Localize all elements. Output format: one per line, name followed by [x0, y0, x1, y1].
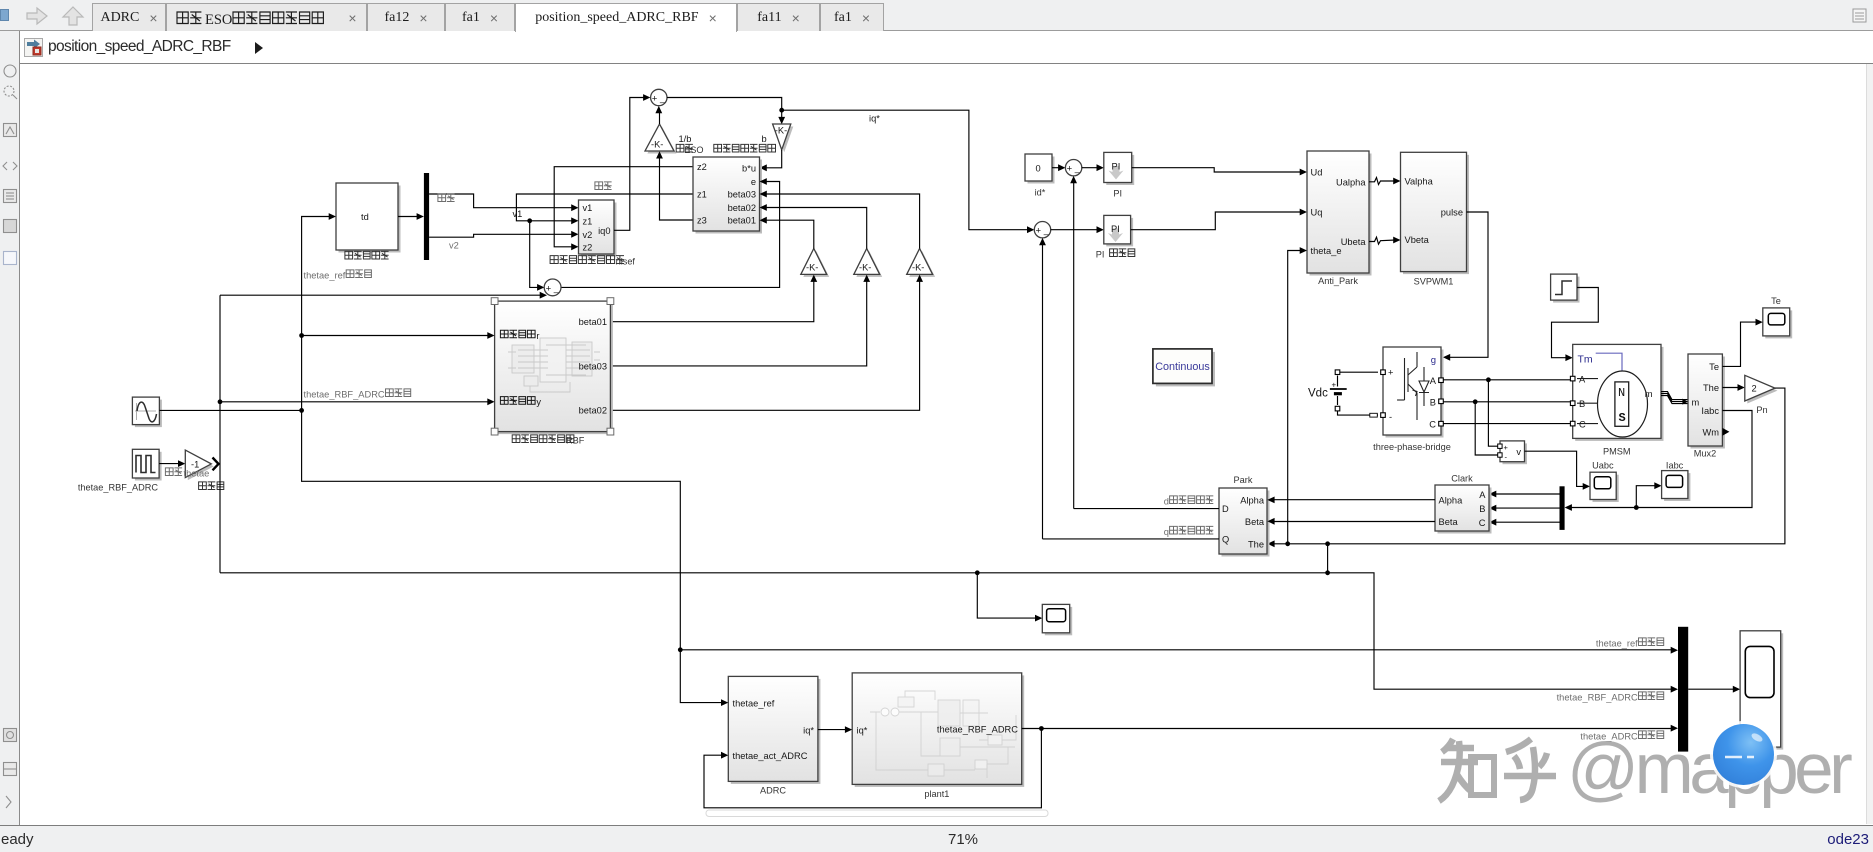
wire Vdc- -> bridge- — [1338, 411, 1379, 415]
svg-text:Pn: Pn — [1756, 405, 1767, 415]
block Mux2 — [1688, 354, 1729, 449]
wire sum iq -> PI控制器 — [1051, 229, 1098, 231]
scope (small, theta) — [1042, 604, 1072, 635]
wire q-current up into sum iq — [1042, 244, 1044, 539]
svg-text:_: _ — [659, 93, 666, 104]
demux bar (td outputs) — [424, 173, 429, 260]
svg-text:+: + — [546, 284, 552, 295]
svg-text:beta03: beta03 — [579, 361, 607, 371]
partial window icon top-left — [0, 9, 9, 21]
sum iq circle — [1034, 222, 1050, 238]
wire ADRC feedback — [704, 729, 1041, 808]
wire bridge A -> PMSM A — [1443, 379, 1570, 381]
faint NN sketch — [508, 338, 600, 392]
block PI控制器 (q axis) — [1104, 215, 1133, 246]
wire gain -> ESO beta03 — [766, 194, 920, 249]
svg-text:nlsef: nlsef — [616, 257, 636, 267]
wire RBF beta02 -> gain — [610, 281, 919, 410]
svg-text:Iabc: Iabc — [1701, 406, 1719, 416]
svg-text:SVPWM1: SVPWM1 — [1414, 277, 1454, 287]
svg-text:thetae_RBF_ADRC: thetae_RBF_ADRC — [937, 724, 1018, 734]
svg-text:A: A — [1430, 376, 1437, 386]
wire e feedback (sum4 -> ESO e) — [561, 182, 780, 288]
wire thetae_ref vertical riser — [302, 217, 331, 411]
wire Mux2 Iabc -> Clark demux — [1570, 411, 1752, 508]
faint plant sketch — [870, 691, 1016, 778]
svg-text:-K-: -K- — [859, 263, 871, 273]
gain beta02 triangle (right) — [907, 249, 935, 277]
wire Clark Beta -> Park Beta — [1273, 521, 1435, 523]
svg-text:z2: z2 — [583, 242, 593, 252]
wire theta feedback vertical (x=220) — [219, 295, 221, 573]
wire theta_e riser — [1288, 251, 1301, 544]
node branch to ADRC/mux — [678, 647, 683, 652]
source Step (Tm) — [1551, 274, 1580, 303]
svg-text:iq*: iq* — [869, 114, 880, 124]
svg-text:pulse: pulse — [1441, 207, 1463, 217]
wire 1/b apex -> sum1 — [659, 113, 661, 125]
source block Sine Wave (thetae_ref) — [132, 397, 162, 427]
svg-text:z2: z2 — [697, 162, 707, 172]
svg-text:0: 0 — [1036, 164, 1041, 174]
svg-text:PI: PI — [1111, 224, 1120, 234]
wire z2 from ESO to nlsef — [554, 167, 693, 247]
svg-text:theta_e: theta_e — [1311, 246, 1342, 256]
up/home arrow — [60, 5, 86, 27]
svg-text:Valpha: Valpha — [1405, 176, 1434, 186]
svg-text:D: D — [1222, 504, 1229, 514]
svg-text:B: B — [1479, 504, 1485, 514]
wire PI控制器 -> Anti_Park Uq — [1131, 212, 1301, 230]
svg-text:A: A — [1579, 374, 1586, 384]
wire iq0 -> sum1 — [614, 98, 645, 231]
svg-text:ESO: ESO — [205, 12, 232, 28]
scope (display, large) — [1740, 631, 1783, 750]
port squares — [1381, 370, 1386, 375]
block PI (d axis) — [1104, 152, 1134, 185]
svg-text:v: v — [1516, 447, 1521, 457]
svg-text:PI: PI — [1112, 162, 1121, 172]
IGBT + diode icon — [1397, 352, 1429, 420]
right list icon — [1852, 8, 1868, 24]
svg-text:+: + — [1332, 381, 1337, 390]
svg-text:A: A — [1479, 490, 1486, 500]
svg-text:thetae_RBF_ADRC: thetae_RBF_ADRC — [1557, 693, 1638, 703]
wire Park D -> sum id (d current) — [1074, 508, 1219, 510]
svg-text:+: + — [1388, 368, 1393, 378]
display mux bar — [1678, 627, 1688, 752]
svg-text:g: g — [1431, 355, 1436, 366]
wire gain -> ESO beta01 — [766, 220, 814, 248]
svg-text:+: + — [1067, 164, 1073, 175]
svg-text:Park: Park — [1234, 475, 1253, 485]
svg-text:beta02: beta02 — [728, 203, 756, 213]
gain beta03 triangle (middle) — [854, 249, 882, 277]
svg-text:Tm: Tm — [1578, 354, 1593, 366]
svg-text:q: q — [1164, 527, 1169, 537]
svg-text:z3: z3 — [697, 216, 707, 226]
wire plant1 out -> display mux — [1022, 728, 1672, 730]
svg-text:The: The — [1703, 383, 1719, 393]
wire bridge B -> PMSM B — [1443, 401, 1570, 403]
svg-text:Uabc: Uabc — [1592, 461, 1614, 471]
svg-text:thetae_ref: thetae_ref — [1596, 639, 1638, 649]
svg-text:-K-: -K- — [651, 140, 663, 150]
svg-text:iq0: iq0 — [598, 226, 610, 236]
wire pulse -> gain — [159, 463, 179, 465]
svg-text:PI: PI — [1113, 189, 1122, 199]
selection handles — [491, 298, 498, 305]
block ADRC — [728, 676, 820, 784]
model icon — [24, 38, 43, 57]
svg-text:thetae_act_ADRC: thetae_act_ADRC — [733, 751, 808, 761]
svg-text:C: C — [1479, 518, 1486, 528]
node z1 branch — [527, 218, 532, 223]
svg-text:Iabc: Iabc — [1666, 461, 1684, 471]
svg-text:thetae_ADRC: thetae_ADRC — [1580, 732, 1638, 742]
sum e circle — [544, 279, 561, 296]
wires demux -> Clark A,B,C — [1495, 493, 1560, 495]
wire v2 — [429, 234, 572, 237]
svg-text:v1: v1 — [583, 203, 593, 213]
wire 期望 (v1) — [429, 194, 572, 208]
svg-text:Ubeta: Ubeta — [1341, 237, 1367, 247]
svg-text:beta01: beta01 — [728, 216, 756, 226]
svg-text:PMSM: PMSM — [1603, 447, 1631, 457]
block SVPWM1 — [1401, 152, 1470, 274]
forward arrow — [24, 6, 50, 26]
block plant1 — [852, 673, 1024, 787]
source block Pulse Generator (thetae_RBF_ADRC实际值) — [132, 449, 161, 480]
wire feedback theta -> sum e — [220, 294, 541, 296]
wire pulse -> bridge g — [1449, 212, 1488, 357]
wire b -> b*u port — [766, 150, 782, 168]
svg-text:C: C — [1429, 420, 1436, 430]
wire Park Q -> sum iq (q current) — [1043, 538, 1220, 540]
svg-text:v1: v1 — [513, 209, 523, 219]
block td 跟踪微分器 — [336, 183, 401, 253]
svg-text:beta03: beta03 — [728, 190, 756, 200]
svg-text:N: N — [1618, 386, 1625, 400]
svg-text:Alpha: Alpha — [1240, 496, 1265, 506]
port squares — [1570, 376, 1575, 381]
label 期望 — [438, 194, 455, 202]
svg-text:Ualpha: Ualpha — [1336, 177, 1366, 187]
wire Ubeta -> Vbeta (jog) — [1369, 237, 1396, 244]
block three-phase-bridge — [1381, 347, 1444, 438]
wire thetae_ref long run to display mux — [680, 649, 1672, 651]
gain Pn (x2) — [1745, 375, 1778, 403]
scrollbar thumb — [706, 810, 1048, 817]
wire 0 -> sum id — [1052, 167, 1060, 169]
svg-text:Vdc: Vdc — [1308, 388, 1328, 400]
乎 glyph — [1504, 739, 1556, 800]
svg-text:b*u: b*u — [742, 163, 756, 173]
svg-text:m: m — [1692, 397, 1700, 407]
svg-text:beta02: beta02 — [579, 406, 607, 416]
wire Clark Alpha -> Park Alpha — [1273, 499, 1435, 501]
svg-text:B: B — [1579, 399, 1585, 409]
wire sum id -> PI — [1082, 167, 1098, 169]
rotor icon — [1596, 353, 1622, 372]
node small scope branch — [975, 570, 980, 575]
svg-text:id*: id* — [1035, 188, 1046, 198]
wire gain -> ESO beta02 — [766, 208, 867, 249]
svg-text:y: y — [536, 397, 541, 407]
svg-text:plant1: plant1 — [924, 789, 949, 799]
voltage measurement v — [1498, 441, 1527, 464]
svg-text:-K-: -K- — [912, 263, 924, 273]
wire Vdc+ -> bridge+ — [1340, 371, 1378, 373]
svg-text:Q: Q — [1222, 535, 1229, 545]
svg-text:ESO: ESO — [684, 145, 703, 155]
svg-text:-K-: -K- — [775, 126, 787, 136]
wire sine -> junction — [159, 409, 301, 411]
wire mux -> big scope — [1688, 688, 1734, 690]
svg-text:C: C — [1579, 419, 1586, 429]
label 观测 — [595, 182, 612, 190]
block 径向基神经网络RBF (selected) — [495, 301, 613, 434]
svg-text:+: + — [1036, 226, 1042, 237]
svg-text:iq*: iq* — [803, 725, 814, 735]
svg-text:Wm: Wm — [1702, 428, 1719, 438]
svg-text:td: td — [361, 212, 369, 222]
block Anti_Park — [1307, 151, 1372, 276]
wire ADRC iq* -> plant1 — [818, 729, 846, 731]
wire Mux2 The -> Pn — [1722, 387, 1739, 389]
wire step -> PMSM Tm — [1552, 288, 1599, 358]
svg-text:Mux2: Mux2 — [1694, 449, 1716, 459]
wire r input — [299, 333, 304, 338]
svg-text:thetae: thetae — [184, 469, 210, 479]
svg-text:z1: z1 — [697, 190, 707, 200]
svg-text:_: _ — [1043, 225, 1050, 236]
wire m bus squiggle — [1661, 392, 1688, 404]
svg-text:RBF: RBF — [566, 436, 585, 446]
source Vdc DC voltage — [1308, 370, 1347, 411]
gain 1/b — [645, 124, 676, 154]
wire Pn -> theta distribution — [1273, 388, 1785, 544]
svg-text:-K-: -K- — [806, 263, 818, 273]
wire RBF beta01 -> gain — [610, 281, 813, 322]
wire RBF beta03 -> gain — [610, 281, 866, 366]
svg-text:Beta: Beta — [1439, 517, 1459, 527]
svg-text:Continuous: Continuous — [1155, 361, 1210, 373]
svg-text:Te: Te — [1709, 362, 1719, 372]
wire Mux2 Te -> scope — [1722, 322, 1756, 366]
label 期望thetae — [165, 468, 182, 476]
知 glyph — [1439, 739, 1494, 801]
svg-text:thetae_RBF_ADRC: thetae_RBF_ADRC — [304, 390, 385, 400]
wire sum1 -> b gain / iq* — [667, 98, 782, 120]
svg-text:Uq: Uq — [1311, 208, 1323, 218]
wire theta long run — [220, 573, 1672, 689]
wire to small scope — [977, 573, 1036, 618]
svg-text:Beta: Beta — [1245, 517, 1265, 527]
block 三阶ESO扩张状态观测器 — [693, 157, 762, 234]
svg-text:iq*: iq* — [857, 725, 868, 735]
block PMSM — [1570, 344, 1663, 441]
wire PI -> Anti_Park Ud — [1132, 168, 1301, 172]
svg-text:2: 2 — [1752, 384, 1757, 394]
svg-text:PI: PI — [1096, 250, 1105, 260]
wire iq* long run — [782, 110, 1029, 230]
svg-text:thetae_ref: thetae_ref — [304, 271, 346, 281]
wire y input — [218, 399, 223, 404]
svg-text:ADRC: ADRC — [760, 786, 786, 796]
svg-text:+: + — [1504, 443, 1509, 452]
svg-text:Anti_Park: Anti_Park — [1318, 276, 1358, 286]
sum id circle — [1065, 160, 1081, 176]
svg-text:v2: v2 — [449, 241, 459, 251]
svg-text:thetae_ref: thetae_ref — [733, 698, 775, 708]
unconnected output chevron — [213, 458, 219, 471]
svg-text:-: - — [1389, 412, 1392, 422]
svg-text:B: B — [1430, 397, 1436, 407]
svg-text:Clark: Clark — [1451, 474, 1473, 484]
gain -1 — [185, 450, 214, 480]
svg-text:three-phase-bridge: three-phase-bridge — [1373, 442, 1451, 452]
svg-text:e: e — [751, 177, 756, 187]
svg-text:Vbeta: Vbeta — [1405, 235, 1430, 245]
svg-text:v2: v2 — [583, 230, 593, 240]
svg-text:m: m — [1645, 389, 1653, 399]
svg-text:The: The — [1248, 539, 1264, 549]
svg-text:Ud: Ud — [1311, 168, 1323, 178]
gain b (pointing down) — [773, 124, 794, 152]
demux bar (Iabc -> A,B,C) — [1560, 486, 1565, 530]
block constant 0 (id*) — [1025, 154, 1055, 184]
wire thetae_ref down to ADRC row — [302, 410, 722, 702]
wire Ualpha -> Valpha (jog) — [1369, 178, 1396, 185]
wire z1 branch down to sum e — [530, 221, 539, 288]
svg-text:thetae_RBF_ADRC: thetae_RBF_ADRC — [78, 483, 159, 493]
svg-text:_: _ — [553, 283, 560, 294]
wire A -> v+ — [1488, 380, 1497, 446]
wire z3 -> 1/b — [660, 158, 694, 221]
svg-text:d: d — [1164, 497, 1169, 507]
svg-text:_: _ — [1074, 163, 1081, 174]
svg-text:Alpha: Alpha — [1439, 495, 1464, 505]
block powergui Continuous — [1153, 349, 1215, 387]
svg-text:1/b: 1/b — [679, 134, 692, 144]
node junction sine/thetae_ref — [299, 408, 304, 413]
svg-text:S: S — [1619, 411, 1626, 425]
svg-text:r: r — [536, 331, 539, 341]
svg-text:+: + — [652, 94, 658, 105]
wire B -> v- — [1475, 402, 1498, 455]
svg-text:z1: z1 — [583, 216, 593, 226]
wire Iabc scope branch — [1636, 486, 1655, 508]
wire z1 from ESO to nlsef — [516, 194, 693, 221]
svg-text:beta01: beta01 — [579, 317, 607, 327]
wire v -> Uabc scope — [1525, 451, 1584, 486]
wire td -> demux — [398, 216, 417, 218]
wire bridge C -> PMSM C — [1443, 423, 1570, 425]
svg-text:Te: Te — [1771, 296, 1781, 306]
wire d-current up into sum id — [1073, 182, 1075, 509]
wire theta down to display run — [1327, 544, 1329, 573]
gain beta01 triangle — [801, 249, 829, 277]
block nlsef 误差反馈非线性组合 — [579, 200, 617, 257]
sum junction circle — [651, 89, 667, 105]
svg-text:b: b — [762, 134, 767, 144]
